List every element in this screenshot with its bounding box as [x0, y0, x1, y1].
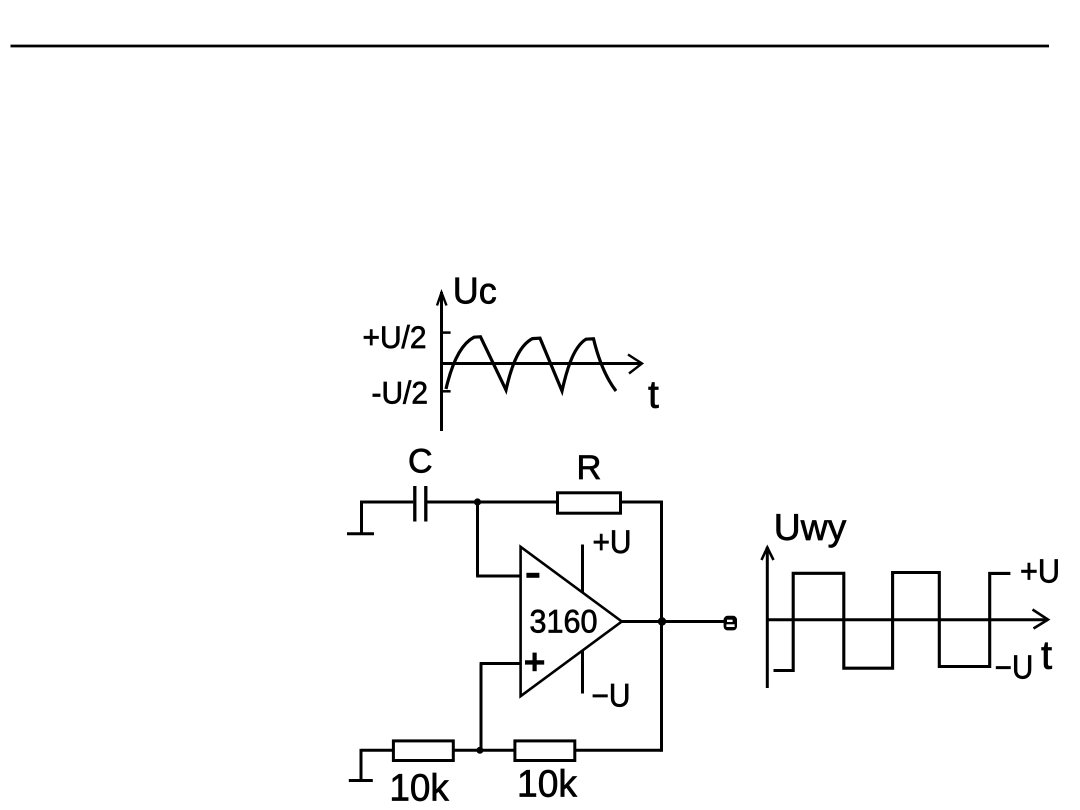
svg-text:-U/2: -U/2 — [372, 375, 429, 411]
svg-text:+U: +U — [1020, 553, 1060, 590]
svg-text:C: C — [408, 443, 433, 481]
svg-text:Uwy: Uwy — [774, 507, 847, 548]
svg-text:−U: −U — [995, 648, 1034, 685]
svg-text:Uc: Uc — [453, 270, 497, 312]
svg-text:t: t — [1041, 634, 1052, 678]
svg-text:t: t — [648, 374, 659, 417]
svg-text:+U: +U — [593, 524, 632, 560]
svg-text:−U: −U — [592, 678, 631, 714]
svg-text:10k: 10k — [517, 763, 578, 805]
svg-text:R: R — [577, 449, 602, 487]
svg-text:3160: 3160 — [530, 604, 598, 640]
svg-text:+U/2: +U/2 — [363, 319, 427, 355]
svg-text:10k: 10k — [389, 768, 449, 810]
